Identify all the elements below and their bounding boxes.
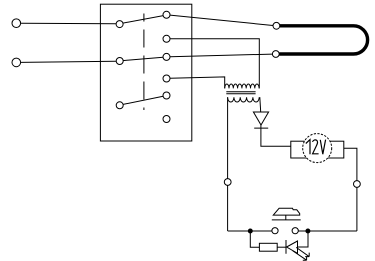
motor label 12V: [306, 140, 326, 155]
junction dot left: [248, 229, 252, 233]
switch S2 throw contact 1: [163, 53, 170, 60]
wire LED to junction: [298, 231, 309, 247]
wire S2 throw1 to heater bottom terminal: [170, 54, 272, 57]
wire X1 to switch S1 common: [21, 22, 116, 25]
transformer T1 core: [226, 92, 255, 94]
push button SB1 bar: [272, 219, 301, 221]
transformer T1 secondary coil: [228, 97, 260, 102]
switch S2 common contact: [116, 58, 123, 65]
wire diode to motor: [261, 125, 291, 147]
transformer T1 primary coil: [225, 84, 259, 88]
wire secondary right down to diode: [259, 97, 262, 112]
switch S3 blade: [123, 96, 163, 104]
switch S2 throw contact 2: [163, 75, 170, 82]
switch box SA1: [100, 4, 191, 141]
terminal X1: [12, 19, 21, 28]
motor M1 box: [291, 141, 344, 158]
switch S3 throw contact 2: [163, 116, 170, 123]
switch S1 blade: [123, 16, 163, 24]
wire resistor to LED: [277, 246, 286, 248]
wire S1 throw2 to transformer primary right: [170, 39, 259, 89]
switch S2 blade: [123, 57, 163, 60]
heater terminal bottom: [272, 51, 279, 58]
terminal X2: [12, 58, 21, 67]
wire S1 throw1 to heater top terminal: [170, 15, 273, 25]
wire junction to resistor: [250, 231, 259, 247]
LED VD2 cathode bar: [285, 240, 287, 254]
mechanical link (dashed): [143, 14, 145, 111]
wire secondary left down to bottom rail: [227, 97, 229, 231]
switch S1 common contact: [116, 21, 123, 28]
heater terminal top: [273, 22, 280, 29]
connector circle right: [354, 181, 361, 188]
LED arrow 2: [293, 251, 307, 260]
wire X2 to switch S2 common: [21, 61, 117, 62]
heater element EK1 (thick U): [279, 26, 367, 54]
LED arrow 1: [296, 247, 309, 256]
switch S1 throw contact 2: [163, 35, 170, 42]
motor M1 dashed circle: [303, 134, 332, 163]
push button SB1 contact left: [272, 228, 278, 234]
junction dot right: [306, 229, 310, 233]
bottom rail left segment: [228, 230, 272, 232]
push button SB1 stem: [285, 215, 287, 220]
bottom rail right segment: [298, 230, 357, 232]
wire motor to right rail: [344, 148, 357, 231]
switch S1 throw contact 1: [163, 11, 170, 18]
switch S3 throw contact 1: [163, 92, 170, 99]
resistor R1: [259, 243, 277, 251]
diode VD1: [253, 112, 268, 128]
LED VD2 triangle: [287, 241, 298, 253]
push button SB1 contact right: [292, 228, 298, 234]
switch S3 common contact: [116, 102, 123, 109]
connector circle left: [224, 179, 231, 186]
wire S2 throw2 to transformer primary left: [170, 77, 225, 89]
push button SB1 cap: [273, 208, 299, 215]
